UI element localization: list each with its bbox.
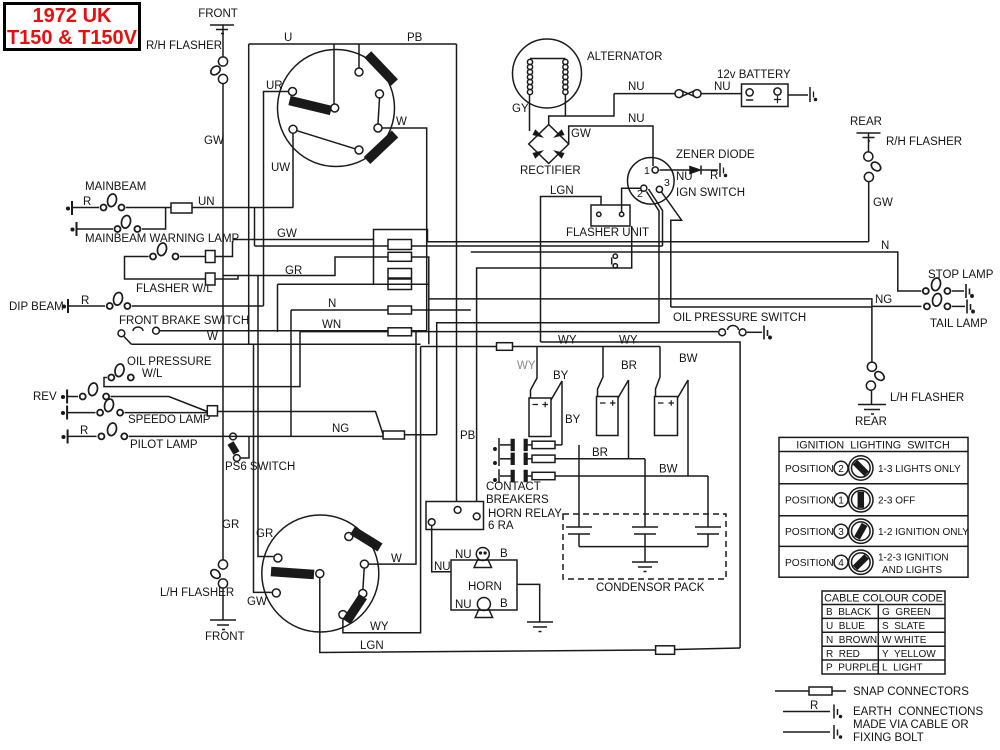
wire ign2 kill pair <box>437 189 663 435</box>
terminal center bottom <box>316 570 324 578</box>
terminal GR bottom <box>274 554 282 562</box>
earth zener <box>720 163 727 177</box>
wire alternator left to rectifier <box>529 95 531 131</box>
svg-text:CABLE COLOUR CODE: CABLE COLOUR CODE <box>824 593 943 605</box>
front brake switch <box>118 327 159 344</box>
svg-text:HORN: HORN <box>468 581 502 593</box>
wire horn to ground <box>517 584 540 622</box>
stop lamp <box>923 277 964 294</box>
svg-text:CONDENSOR PACK: CONDENSOR PACK <box>596 582 705 594</box>
svg-text:2: 2 <box>838 464 844 475</box>
rev lamp <box>67 382 109 399</box>
earth stop lamp <box>966 284 973 298</box>
row position 2 <box>785 456 961 480</box>
wire battery to earth <box>788 94 808 96</box>
wire W from top circle <box>383 128 427 331</box>
wire warning lamp up to UN <box>142 208 166 230</box>
svg-text:PB: PB <box>407 32 423 44</box>
coil 3 drop <box>656 347 661 397</box>
svg-text:BY: BY <box>553 370 569 382</box>
svg-text:BW: BW <box>679 353 698 365</box>
outer rect left edge / GW to bottom switch <box>249 44 272 592</box>
wire to rear ground <box>871 390 873 404</box>
svg-text:R/H FLASHER: R/H FLASHER <box>146 40 222 52</box>
earth tail lamp <box>967 300 974 314</box>
connector box GR <box>206 273 216 285</box>
svg-text:FLASHER W/L: FLASHER W/L <box>136 283 213 295</box>
earth oil pressure switch <box>764 326 771 340</box>
svg-text:R: R <box>710 170 718 182</box>
svg-text:DIP BEAM: DIP BEAM <box>9 301 64 313</box>
wire oil wl loop <box>104 332 300 387</box>
flasher unit <box>591 205 630 226</box>
svg-text:BW: BW <box>659 464 678 476</box>
wire NU to fuse <box>614 93 675 95</box>
earth mainbeam <box>67 201 72 215</box>
svg-text:WY: WY <box>619 335 638 347</box>
svg-text:REV: REV <box>33 391 57 403</box>
wire ign2 to flasher unit <box>622 188 641 211</box>
svg-text:CONTACT: CONTACT <box>486 481 541 493</box>
svg-text:FLASHER UNIT: FLASHER UNIT <box>566 227 649 239</box>
snap connector NG <box>383 431 404 439</box>
wire brake W <box>160 330 427 332</box>
wire box to GW bus <box>215 241 233 257</box>
svg-text:3: 3 <box>664 177 670 189</box>
wire ign3 kill to NG <box>662 192 682 307</box>
riser x373 <box>373 240 375 285</box>
terminal WY bottom <box>339 611 347 619</box>
svg-text:GW: GW <box>571 128 591 140</box>
ignition coil 3 <box>655 380 689 436</box>
riser to horn relay t2 <box>477 226 632 513</box>
earth battery <box>810 87 817 102</box>
svg-text:R: R <box>810 700 818 712</box>
svg-text:BR: BR <box>592 447 608 459</box>
wire front flasher top <box>222 25 224 57</box>
link right terminals <box>378 98 380 123</box>
legend earth 2 <box>783 725 842 739</box>
N bus left <box>291 309 471 311</box>
wire U drop <box>333 44 335 104</box>
ign switch <box>628 158 675 205</box>
svg-text:R: R <box>81 295 89 307</box>
link bottom terminals <box>297 131 354 149</box>
svg-text:W/L: W/L <box>142 368 163 380</box>
wire relay to horn <box>432 526 451 572</box>
wire LGN bottom <box>320 578 656 652</box>
svg-text:OIL PRESSURE: OIL PRESSURE <box>127 356 212 368</box>
svg-text:MADE VIA CABLE OR: MADE VIA CABLE OR <box>853 719 969 731</box>
PS6 switch <box>230 433 249 461</box>
contact breaker 1 <box>494 438 562 452</box>
ground rear right <box>857 133 881 141</box>
terminal top PB <box>355 68 363 76</box>
N left riser <box>290 310 292 436</box>
title box 1972 UK T150 <box>5 4 140 50</box>
switch bar top right bottom <box>353 531 381 548</box>
terminal W bottom <box>360 560 368 568</box>
svg-text:MAINBEAM: MAINBEAM <box>85 181 146 193</box>
svg-text:L/H FLASHER: L/H FLASHER <box>890 392 964 404</box>
ignition coil 2 <box>597 380 629 436</box>
GW bus wire <box>233 230 869 242</box>
terminal center <box>331 104 339 112</box>
svg-text:UN: UN <box>198 196 215 208</box>
svg-text:PB: PB <box>460 430 476 442</box>
wire PB drop <box>358 44 360 68</box>
capacitor 1 <box>566 527 592 547</box>
ground rear left flasher <box>858 405 886 415</box>
snap connector WN <box>388 328 412 336</box>
svg-text:NU: NU <box>455 599 472 611</box>
snap connector LGN <box>656 646 675 655</box>
switch bar bottom right <box>367 134 395 161</box>
svg-text:LGN: LGN <box>550 185 574 197</box>
svg-text:G GREEN: G GREEN <box>882 607 931 618</box>
WN bus wire to oil pressure switch <box>300 331 718 333</box>
svg-text:REAR: REAR <box>855 416 887 428</box>
condensor lead 3 <box>707 476 709 527</box>
wire rectifier to ign switch <box>569 126 653 166</box>
svg-text:GW: GW <box>247 596 267 608</box>
terminal UR <box>289 88 297 96</box>
svg-text:AND LIGHTS: AND LIGHTS <box>882 565 942 576</box>
wire ign to zener <box>659 169 690 171</box>
svg-text:NU: NU <box>628 113 645 125</box>
svg-text:NU: NU <box>455 549 472 561</box>
horn box <box>451 560 517 610</box>
svg-text:POSITION: POSITION <box>785 527 834 538</box>
wire GW rear flasher down <box>868 182 870 242</box>
svg-text:FIXING BOLT: FIXING BOLT <box>853 732 924 744</box>
switch bar left <box>290 101 332 111</box>
BW wire <box>687 380 689 476</box>
capacitor ground lead <box>644 547 646 562</box>
alternator <box>513 39 582 108</box>
earth rev <box>62 390 67 404</box>
wire alternator right down <box>565 94 614 116</box>
wire box to GR bus <box>215 276 238 280</box>
svg-text:ZENER DIODE: ZENER DIODE <box>676 149 755 161</box>
svg-text:WY: WY <box>517 360 536 372</box>
riser x277 <box>277 284 279 332</box>
svg-text:EARTH CONNECTIONS: EARTH CONNECTIONS <box>853 706 983 718</box>
earth dip beam <box>63 299 68 313</box>
horn relay <box>426 502 484 530</box>
snap connector N <box>388 306 412 314</box>
capacitor 2 <box>632 527 658 547</box>
flasher R/H front <box>209 57 228 84</box>
cable code rows <box>826 607 936 674</box>
ground horn <box>527 622 553 632</box>
svg-text:12v BATTERY: 12v BATTERY <box>717 69 791 81</box>
snap connector UN <box>171 203 192 213</box>
wire to front ground bottom <box>222 588 224 620</box>
svg-text:3: 3 <box>838 527 844 538</box>
svg-text:NU: NU <box>714 81 731 93</box>
wire speedo right <box>218 412 384 435</box>
svg-text:STOP LAMP: STOP LAMP <box>928 269 994 281</box>
terminal top right bottom <box>345 533 353 541</box>
switch bar center bottom <box>271 572 314 575</box>
wire flasher wl left loop <box>125 257 206 280</box>
row position 4 <box>785 550 949 576</box>
svg-text:2: 2 <box>637 188 643 200</box>
svg-text:1-3 LIGHTS ONLY: 1-3 LIGHTS ONLY <box>878 464 961 475</box>
terminal UW <box>289 125 297 133</box>
svg-text:W: W <box>396 116 407 128</box>
wire LGN <box>541 197 602 343</box>
switch bar top right <box>368 55 395 83</box>
connector box GW <box>206 251 216 263</box>
svg-text:NG: NG <box>875 294 892 306</box>
svg-text:NU: NU <box>628 81 645 93</box>
svg-text:IGNITION LIGHTING SWITCH: IGNITION LIGHTING SWITCH <box>796 440 950 452</box>
LGN bus wire <box>541 342 741 648</box>
svg-text:6 RA: 6 RA <box>488 520 514 532</box>
svg-text:SPEEDO LAMP: SPEEDO LAMP <box>128 414 211 426</box>
link right terminals bottom <box>363 569 364 589</box>
wire rear flasher <box>868 133 870 152</box>
outer rect right edge PB to horn relay <box>456 44 458 507</box>
zener diode <box>690 166 718 175</box>
dip beam lamp <box>68 292 130 309</box>
svg-text:T150 & T150V: T150 & T150V <box>7 27 138 49</box>
svg-text:N: N <box>881 240 889 252</box>
horn top <box>474 548 491 568</box>
svg-text:U: U <box>284 32 292 44</box>
FLASHER W/L lamp <box>150 242 179 259</box>
lighting switch top circle <box>278 50 395 167</box>
svg-text:OIL PRESSURE SWITCH: OIL PRESSURE SWITCH <box>673 312 806 324</box>
wire y284 <box>278 283 413 285</box>
terminal GW bottom <box>272 589 280 597</box>
wire UR <box>264 92 289 307</box>
svg-text:1-2-3 IGNITION: 1-2-3 IGNITION <box>878 553 949 564</box>
tail lamp <box>924 293 965 310</box>
WY feed wire <box>421 346 497 348</box>
flasher L/H front <box>209 560 228 588</box>
svg-text:W WHITE: W WHITE <box>882 635 927 646</box>
svg-text:N: N <box>328 298 336 310</box>
condensor lead 1 <box>578 445 580 527</box>
svg-text:BR: BR <box>621 360 637 372</box>
BY wire <box>561 381 563 445</box>
oil pressure warning lamp <box>108 363 134 380</box>
terminal right upper <box>376 90 384 98</box>
svg-text:GW: GW <box>277 228 297 240</box>
svg-text:RECTIFIER: RECTIFIER <box>520 165 581 177</box>
switch bar bottom right lower <box>347 597 364 622</box>
oil pressure switch <box>719 326 762 336</box>
earth speedo <box>62 406 67 420</box>
battery <box>742 84 789 107</box>
svg-text:W: W <box>391 553 402 565</box>
row position 1 <box>785 488 915 512</box>
cable colour code table <box>822 591 945 674</box>
wire dip beam UR <box>132 305 264 307</box>
flasher toggle <box>612 254 618 268</box>
svg-text:REAR: REAR <box>850 116 882 128</box>
GR riser to bottom switch <box>258 276 273 557</box>
svg-text:U BLUE: U BLUE <box>826 621 865 632</box>
svg-text:B: B <box>500 598 508 610</box>
fuse <box>675 90 701 98</box>
svg-text:POSITION: POSITION <box>785 558 834 569</box>
contact breaker 3 <box>494 469 708 483</box>
legend snap connectors <box>775 687 846 695</box>
row position 3 <box>785 519 969 543</box>
svg-text:TAIL LAMP: TAIL LAMP <box>930 318 988 330</box>
svg-text:R: R <box>83 196 91 208</box>
wire UN to UW vertical <box>192 207 293 209</box>
wire mid bus y245 <box>255 245 663 247</box>
snap connector WY <box>497 343 513 351</box>
svg-text:Y YELLOW: Y YELLOW <box>882 649 936 660</box>
svg-text:UW: UW <box>271 162 290 174</box>
contact breaker 2 <box>494 452 645 466</box>
svg-text:S SLATE: S SLATE <box>882 621 925 632</box>
terminal bottom <box>355 146 363 154</box>
svg-text:GY: GY <box>512 103 529 115</box>
ignition coil 1 <box>529 381 562 437</box>
condensor lead 2 <box>644 459 646 527</box>
flasher L/H rear <box>866 362 886 390</box>
svg-text:BY: BY <box>565 414 581 426</box>
lighting switch bottom circle <box>262 515 379 632</box>
svg-text:1972 UK: 1972 UK <box>33 5 112 27</box>
NG wire right <box>671 305 922 308</box>
wire fuse to battery <box>702 93 742 95</box>
BR wire <box>628 380 630 459</box>
svg-text:PILOT LAMP: PILOT LAMP <box>130 439 198 451</box>
ignition lighting switch table <box>779 437 968 577</box>
svg-text:BREAKERS: BREAKERS <box>486 494 549 506</box>
N bus wire right <box>471 252 922 291</box>
svg-text:1: 1 <box>838 496 844 507</box>
coil 2 drop <box>598 347 604 397</box>
svg-text:R: R <box>80 425 88 437</box>
condensor pack box <box>563 514 726 579</box>
flasher R/H rear <box>864 152 883 182</box>
wire mainbeam to snap <box>126 207 171 209</box>
svg-text:HORN RELAY: HORN RELAY <box>488 508 562 520</box>
svg-text:GW: GW <box>873 197 893 209</box>
wire WY bottom <box>343 347 421 633</box>
svg-text:WY: WY <box>558 335 577 347</box>
capacitor bus <box>579 546 708 548</box>
svg-text:FRONT: FRONT <box>198 8 238 20</box>
wire NG to riser <box>405 434 437 436</box>
wire flasher wl right <box>180 256 206 258</box>
svg-text:SNAP CONNECTORS: SNAP CONNECTORS <box>853 686 969 698</box>
svg-text:B: B <box>500 548 508 560</box>
terminal W <box>374 124 382 132</box>
coil 1 drop <box>531 347 538 399</box>
snap connector stack <box>388 240 412 290</box>
ground condensor <box>632 562 658 572</box>
wire UW <box>292 134 294 208</box>
capacitor 3 <box>695 527 721 547</box>
ground front top <box>210 25 234 34</box>
earth mainbeam warning <box>71 222 76 236</box>
svg-text:FRONT: FRONT <box>205 631 245 643</box>
svg-text:LGN: LGN <box>360 640 384 652</box>
wire pilot NG <box>129 435 383 437</box>
WY wire to coils <box>513 346 661 348</box>
earth pilot <box>62 430 67 444</box>
svg-text:R/H FLASHER: R/H FLASHER <box>886 136 962 148</box>
svg-text:UR: UR <box>266 80 283 92</box>
speedo lamp <box>67 398 123 416</box>
ground front bottom <box>210 620 236 630</box>
svg-text:4: 4 <box>838 558 844 569</box>
svg-text:PS6 SWITCH: PS6 SWITCH <box>225 461 295 473</box>
wire rev diagonal <box>111 397 208 412</box>
svg-text:B BLACK: B BLACK <box>826 607 871 618</box>
wire brake lower <box>131 343 420 345</box>
svg-text:P PURPLE: P PURPLE <box>826 663 879 674</box>
top bus wire U/PB <box>249 43 457 45</box>
svg-text:FRONT BRAKE SWITCH: FRONT BRAKE SWITCH <box>119 315 249 327</box>
svg-text:R RED: R RED <box>826 649 860 660</box>
mainbeam warning lamp <box>77 215 141 232</box>
svg-text:GW: GW <box>204 135 224 147</box>
svg-text:2-3 OFF: 2-3 OFF <box>878 496 915 507</box>
wire GW down left column <box>222 84 224 560</box>
svg-text:W: W <box>207 331 218 343</box>
svg-text:N BROWN: N BROWN <box>826 635 877 646</box>
svg-text:L LIGHT: L LIGHT <box>882 663 923 674</box>
svg-text:ALTERNATOR: ALTERNATOR <box>587 51 662 63</box>
wire speedo to box <box>125 412 208 414</box>
horn bottom <box>475 598 492 618</box>
svg-text:POSITION: POSITION <box>785 496 834 507</box>
svg-text:IGN SWITCH: IGN SWITCH <box>676 187 745 199</box>
svg-text:GR: GR <box>222 519 239 531</box>
GR bus wire <box>223 257 872 362</box>
mainbeam lamp <box>72 193 125 210</box>
svg-text:WY: WY <box>370 621 389 633</box>
svg-text:1: 1 <box>644 165 650 177</box>
wire LGN right <box>675 648 741 650</box>
terminal right lower bottom <box>359 590 367 598</box>
wire W bottom switch <box>369 331 416 564</box>
rectifier <box>529 125 569 164</box>
pilot lamp <box>68 422 128 439</box>
svg-text:NG: NG <box>332 423 349 435</box>
svg-text:1-2 IGNITION ONLY: 1-2 IGNITION ONLY <box>878 527 969 538</box>
connector box speedo <box>207 406 217 416</box>
wire riser x428 <box>428 299 430 344</box>
legend earth R <box>783 700 842 719</box>
svg-text:WN: WN <box>322 319 341 331</box>
svg-text:POSITION: POSITION <box>785 464 834 475</box>
wire rectifier top riser <box>549 116 566 125</box>
